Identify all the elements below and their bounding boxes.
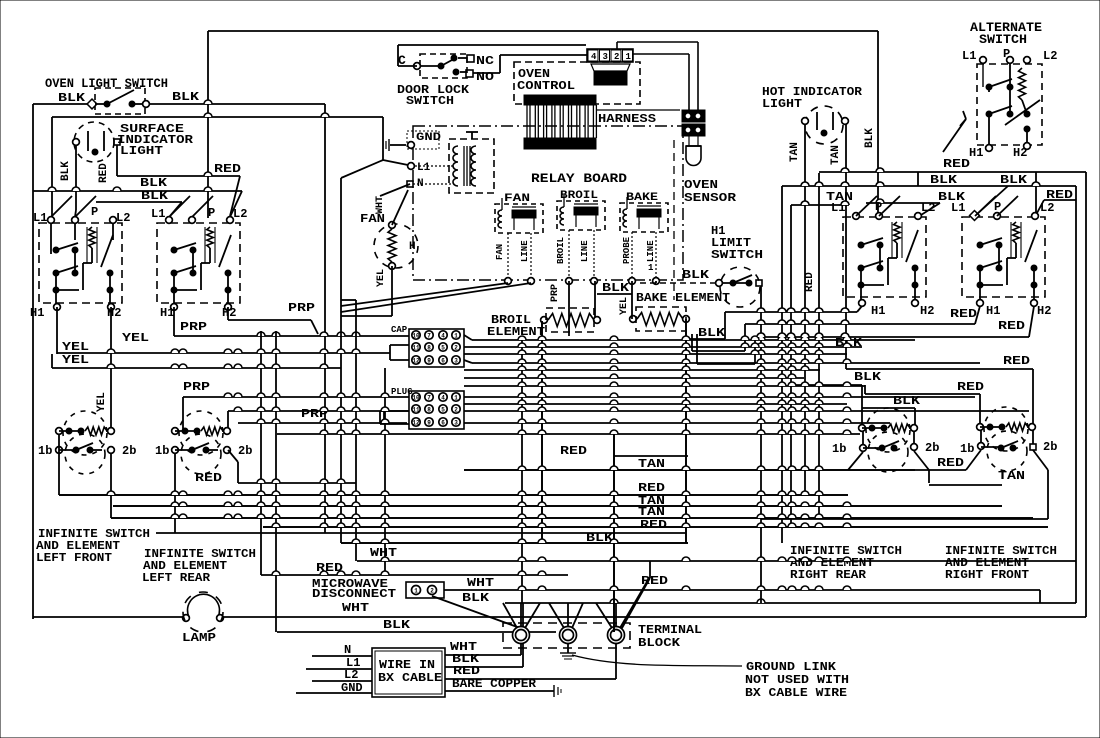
svg-text:SENSOR: SENSOR — [684, 191, 737, 205]
svg-text:8: 8 — [427, 345, 431, 352]
svg-text:YEL: YEL — [62, 340, 89, 354]
svg-text:RED: RED — [638, 481, 665, 495]
svg-text:1: 1 — [414, 588, 418, 595]
svg-text:H1: H1 — [871, 304, 885, 318]
svg-text:WHT: WHT — [342, 601, 369, 615]
svg-text:P: P — [208, 206, 215, 220]
svg-text:LEFT REAR: LEFT REAR — [142, 571, 211, 585]
svg-text:3: 3 — [603, 52, 608, 62]
svg-text:H2: H2 — [107, 306, 121, 320]
svg-text:TAN: TAN — [998, 469, 1025, 483]
svg-text:LAMP: LAMP — [182, 631, 216, 645]
svg-text:2: 2 — [454, 407, 458, 414]
svg-text:BAKE ELEMENT: BAKE ELEMENT — [636, 291, 730, 305]
svg-text:N: N — [344, 643, 351, 657]
svg-text:DISCONNECT: DISCONNECT — [312, 587, 396, 601]
svg-text:WIRE IN: WIRE IN — [379, 658, 435, 672]
svg-text:ELEMENT: ELEMENT — [487, 325, 545, 339]
svg-text:RIGHT REAR: RIGHT REAR — [790, 568, 867, 582]
svg-text:L2: L2 — [1043, 49, 1057, 63]
svg-text:RED: RED — [98, 163, 110, 183]
svg-text:RED: RED — [1003, 354, 1030, 368]
svg-text:WHT: WHT — [467, 576, 494, 590]
svg-text:YEL: YEL — [96, 392, 108, 412]
svg-text:LINE: LINE — [646, 240, 656, 262]
svg-text:RED: RED — [195, 471, 222, 485]
svg-text:2b: 2b — [122, 444, 136, 458]
svg-text:1: 1 — [626, 52, 632, 62]
svg-text:RED: RED — [998, 319, 1025, 333]
svg-text:SWITCH: SWITCH — [406, 94, 454, 108]
svg-text:BLK: BLK — [698, 326, 726, 340]
svg-text:BARE COPPER: BARE COPPER — [452, 677, 537, 691]
svg-text:10: 10 — [412, 333, 420, 340]
svg-text:CONTROL: CONTROL — [517, 79, 575, 93]
svg-text:RED: RED — [957, 380, 984, 394]
svg-text:SWITCH: SWITCH — [979, 32, 1027, 47]
svg-text:9: 9 — [427, 358, 431, 365]
svg-text:7: 7 — [427, 333, 431, 340]
svg-text:BLK: BLK — [58, 91, 86, 105]
svg-text:H2: H2 — [920, 304, 934, 318]
svg-text:RELAY BOARD: RELAY BOARD — [531, 171, 627, 186]
svg-text:2: 2 — [454, 345, 458, 352]
svg-text:6: 6 — [441, 420, 445, 427]
svg-text:BLK: BLK — [682, 268, 710, 282]
svg-text:BROIL: BROIL — [556, 237, 566, 264]
svg-text:BROIL: BROIL — [560, 190, 598, 202]
svg-text:LINE: LINE — [580, 240, 590, 262]
svg-text:LIGHT: LIGHT — [120, 144, 163, 158]
svg-text:NOT USED WITH: NOT USED WITH — [745, 673, 849, 687]
svg-text:H1: H1 — [969, 146, 983, 160]
svg-text:BLK: BLK — [602, 281, 630, 295]
svg-text:7: 7 — [427, 395, 431, 402]
svg-text:1: 1 — [454, 395, 458, 402]
svg-text:PROBE: PROBE — [622, 236, 632, 264]
svg-text:L1: L1 — [33, 211, 47, 225]
svg-text:FAN: FAN — [504, 193, 530, 205]
svg-text:3: 3 — [454, 358, 458, 365]
svg-text:L1: L1 — [151, 207, 165, 221]
svg-text:BLOCK: BLOCK — [638, 636, 681, 650]
svg-text:L2: L2 — [344, 668, 358, 682]
svg-text:6: 6 — [441, 358, 445, 365]
svg-text:2: 2 — [430, 588, 434, 595]
svg-text:TAN: TAN — [638, 505, 665, 519]
svg-text:BLK: BLK — [383, 618, 411, 632]
svg-text:WHT: WHT — [375, 196, 386, 214]
svg-text:BLK: BLK — [1000, 173, 1028, 187]
svg-text:4: 4 — [441, 333, 445, 340]
svg-text:PRP: PRP — [180, 320, 207, 334]
svg-text:2b: 2b — [238, 444, 252, 458]
svg-text:H1: H1 — [986, 304, 1000, 318]
svg-text:4: 4 — [591, 52, 597, 62]
svg-text:RED: RED — [640, 518, 667, 532]
svg-text:8: 8 — [427, 407, 431, 414]
svg-text:BLK: BLK — [854, 370, 882, 384]
svg-text:SWITCH: SWITCH — [711, 248, 763, 262]
svg-text:BLK: BLK — [864, 128, 876, 148]
svg-text:PRP: PRP — [550, 284, 561, 302]
svg-text:11: 11 — [412, 407, 420, 414]
svg-text:LIGHT: LIGHT — [762, 97, 802, 111]
svg-text:L2: L2 — [1040, 201, 1054, 215]
svg-text:HARNESS: HARNESS — [598, 112, 656, 126]
svg-text:YEL: YEL — [376, 269, 387, 287]
svg-text:2b: 2b — [925, 441, 939, 455]
svg-text:LINE: LINE — [520, 240, 530, 262]
svg-text:5: 5 — [441, 407, 445, 414]
svg-text:2b: 2b — [1043, 440, 1057, 454]
svg-text:GROUND LINK: GROUND LINK — [746, 660, 837, 674]
svg-text:TAN: TAN — [830, 145, 842, 165]
svg-text:TERMINAL: TERMINAL — [638, 623, 702, 637]
svg-text:1b: 1b — [155, 444, 169, 458]
svg-text:RIGHT FRONT: RIGHT FRONT — [945, 568, 1029, 582]
svg-text:11: 11 — [412, 345, 420, 352]
svg-text:H2: H2 — [1013, 146, 1027, 160]
svg-text:12: 12 — [412, 358, 420, 365]
svg-text:3: 3 — [454, 420, 458, 427]
svg-text:L1: L1 — [951, 201, 965, 215]
svg-text:YEL: YEL — [122, 331, 149, 345]
svg-text:LEFT FRONT: LEFT FRONT — [36, 551, 112, 565]
svg-text:RED: RED — [214, 162, 241, 176]
svg-text:H2: H2 — [222, 306, 236, 320]
svg-text:YEL: YEL — [619, 297, 630, 315]
svg-text:9: 9 — [427, 420, 431, 427]
svg-text:TAN: TAN — [789, 142, 801, 162]
svg-text:L2: L2 — [116, 211, 130, 225]
svg-text:2: 2 — [614, 52, 619, 62]
svg-text:RED: RED — [937, 456, 964, 470]
svg-text:CAP: CAP — [391, 325, 408, 335]
svg-text:BX CABLE: BX CABLE — [378, 671, 442, 685]
svg-text:1: 1 — [454, 333, 458, 340]
svg-text:TAN: TAN — [638, 457, 665, 471]
svg-text:RED: RED — [560, 444, 587, 458]
svg-text:H1: H1 — [30, 306, 44, 320]
svg-text:BLK: BLK — [930, 173, 958, 187]
svg-text:FAN: FAN — [495, 244, 505, 260]
svg-text:PRP: PRP — [288, 301, 315, 315]
svg-text:PRP: PRP — [183, 380, 210, 394]
svg-text:L2: L2 — [921, 201, 935, 215]
svg-text:5: 5 — [441, 345, 445, 352]
svg-text:BLK: BLK — [462, 591, 490, 605]
svg-text:H1: H1 — [160, 306, 174, 320]
svg-text:YEL: YEL — [62, 353, 89, 367]
svg-text:1: 1 — [648, 263, 654, 273]
svg-text:BAKE: BAKE — [626, 192, 658, 204]
svg-text:BLK: BLK — [140, 176, 168, 190]
svg-text:H: H — [409, 241, 416, 253]
svg-text:RED: RED — [950, 307, 977, 321]
svg-text:1b: 1b — [960, 442, 974, 456]
svg-text:BX CABLE WIRE: BX CABLE WIRE — [745, 686, 847, 700]
svg-text:H2: H2 — [1037, 304, 1051, 318]
svg-text:1b: 1b — [38, 444, 52, 458]
svg-text:1b: 1b — [832, 442, 846, 456]
svg-text:OVEN: OVEN — [684, 178, 718, 192]
svg-text:L1: L1 — [417, 162, 431, 174]
svg-text:BLK: BLK — [60, 161, 72, 181]
svg-text:4: 4 — [441, 395, 445, 402]
svg-text:P: P — [91, 205, 98, 219]
svg-text:L1: L1 — [962, 49, 976, 63]
svg-text:L2: L2 — [233, 207, 247, 221]
svg-text:RED: RED — [804, 272, 816, 292]
svg-text:RED: RED — [453, 664, 480, 678]
svg-text:10: 10 — [412, 395, 420, 402]
svg-text:GND: GND — [416, 132, 441, 144]
svg-text:NC: NC — [476, 54, 494, 68]
svg-text:12: 12 — [412, 420, 420, 427]
svg-text:BLK: BLK — [172, 90, 200, 104]
svg-text:RED: RED — [943, 157, 970, 171]
